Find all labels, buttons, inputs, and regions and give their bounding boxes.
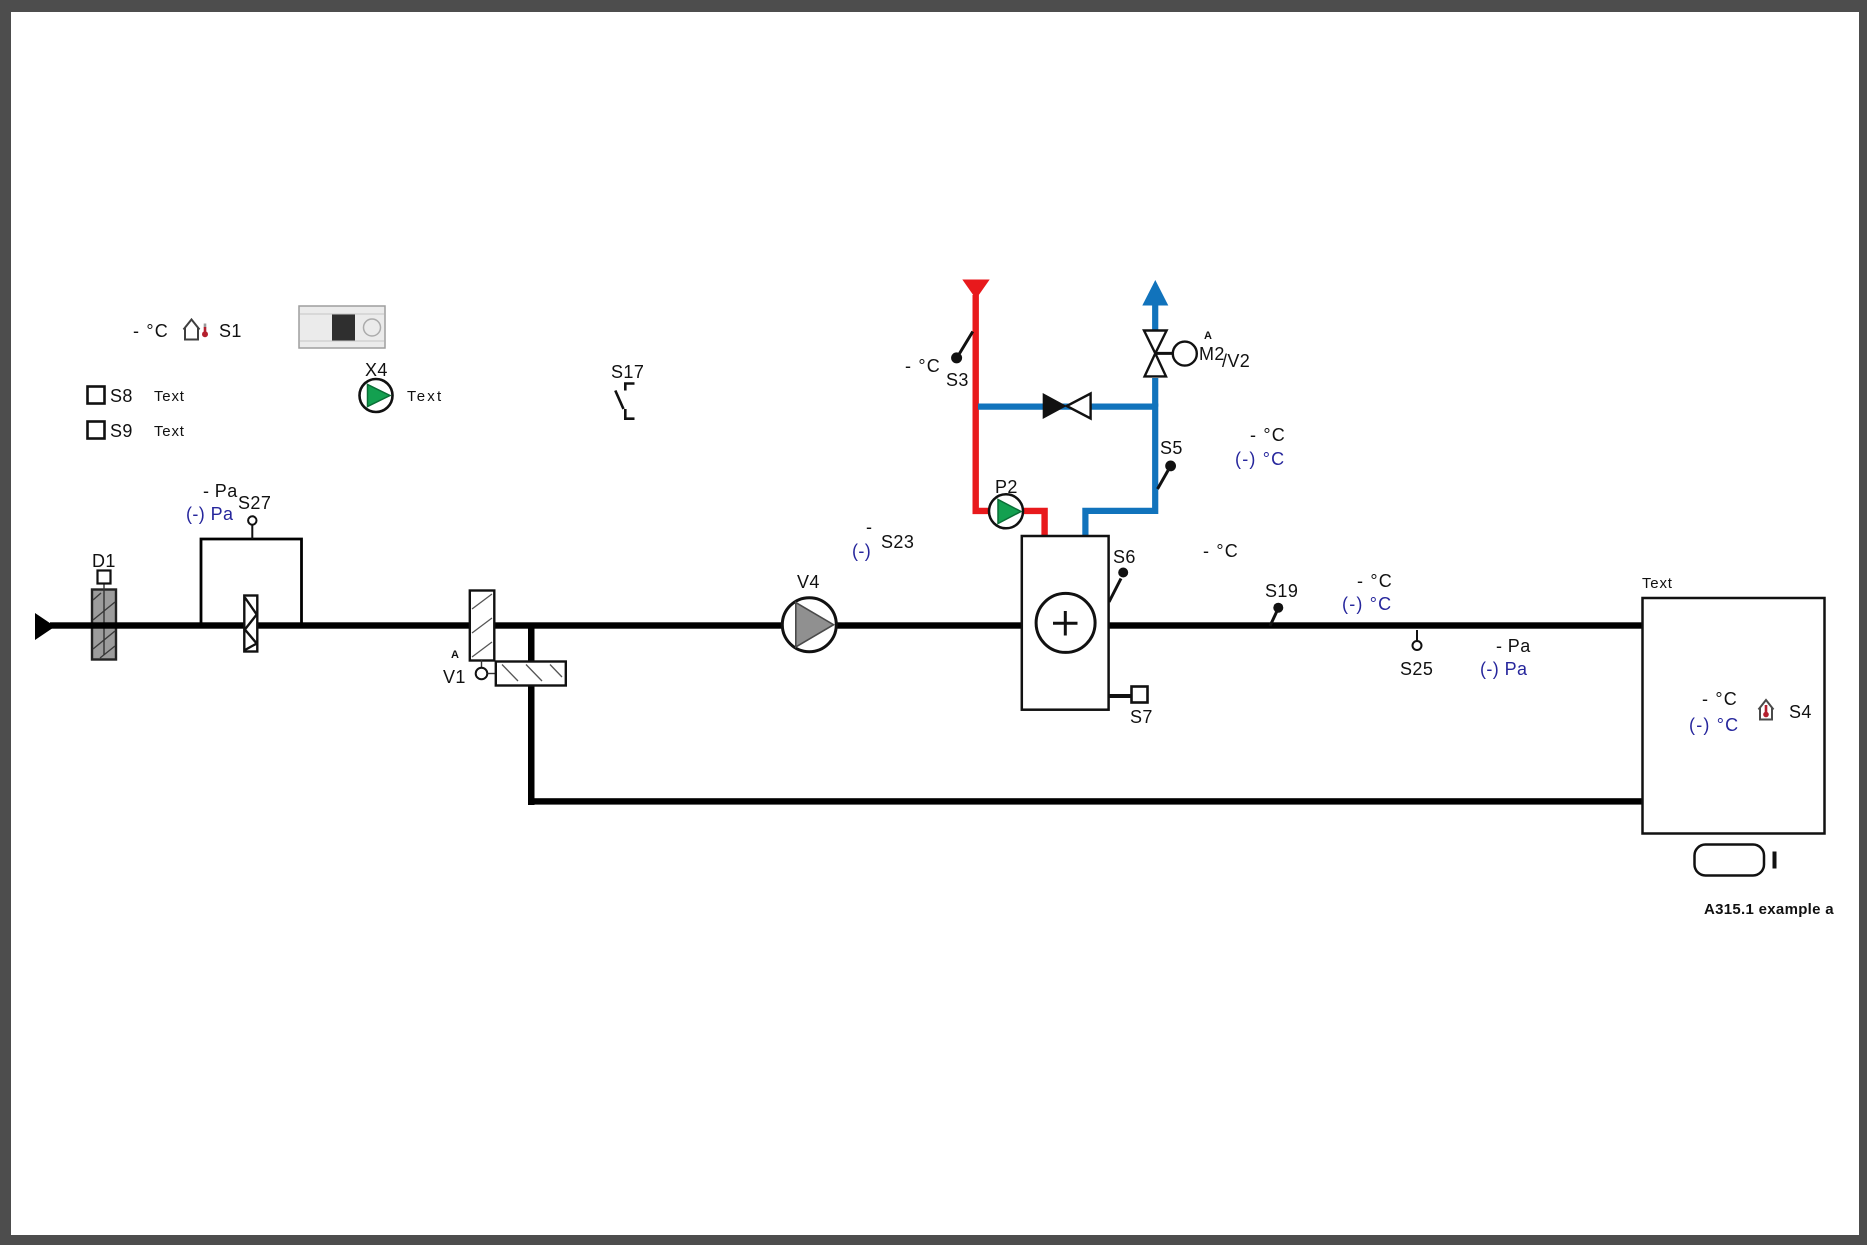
valve M2/V2 (1144, 331, 1167, 377)
svg-text:S7: S7 (1130, 707, 1153, 727)
return blue pipe (978, 305, 1155, 537)
svg-text:S23: S23 (881, 532, 914, 552)
indicator I (1773, 852, 1777, 869)
svg-text:- °C: - °C (133, 321, 169, 341)
check valve (1043, 393, 1067, 419)
sensor S5 (1158, 471, 1169, 490)
svg-text:A: A (1204, 330, 1212, 342)
svg-text:- Pa: - Pa (203, 481, 238, 501)
bypass duct S27 (201, 539, 302, 625)
svg-text:S19: S19 (1265, 581, 1298, 601)
svg-text:- °C: - °C (1203, 541, 1239, 561)
svg-text:- °C: - °C (905, 356, 941, 376)
svg-text:Text: Text (154, 388, 185, 405)
damper (bypass bowtie) (244, 596, 257, 652)
svg-text:Text: Text (1642, 575, 1673, 592)
svg-text:S9: S9 (110, 421, 133, 441)
indicator X4 (360, 379, 393, 412)
svg-text:V1: V1 (443, 667, 466, 687)
blue return arrow (1142, 280, 1168, 306)
control panel icon (299, 306, 385, 348)
red supply arrow (962, 280, 989, 300)
damper D1 body (92, 584, 116, 660)
svg-text:- Pa: - Pa (1496, 636, 1531, 656)
heater box (1022, 536, 1109, 710)
status button (1695, 845, 1765, 876)
supply red pipe (976, 295, 1045, 537)
checkbox S8 (88, 387, 105, 404)
svg-text:- °C: - °C (1357, 571, 1393, 591)
intake arrow (35, 613, 55, 640)
svg-text:(-) Pa: (-) Pa (1480, 659, 1528, 679)
svg-text:P2: P2 (995, 477, 1018, 497)
house icon S4 (1759, 700, 1774, 720)
thermometer S4 (1765, 705, 1768, 713)
svg-text:S27: S27 (238, 493, 271, 513)
svg-text:S1: S1 (219, 321, 242, 341)
svg-text:(-): (-) (852, 541, 871, 561)
svg-text:S17: S17 (611, 362, 644, 382)
svg-text:- °C: - °C (1702, 689, 1738, 709)
svg-text:A: A (451, 649, 459, 661)
sensor S3 (960, 332, 973, 354)
room box (1643, 598, 1825, 834)
sensor S19 (1270, 611, 1277, 626)
svg-text:V4: V4 (797, 572, 820, 592)
svg-text:(-) °C: (-) °C (1235, 449, 1285, 469)
return branch vertical (528, 625, 535, 805)
svg-text:(-) °C: (-) °C (1342, 594, 1392, 614)
sensor S6 (1109, 579, 1121, 603)
svg-text:S4: S4 (1789, 702, 1812, 722)
svg-text:S6: S6 (1113, 547, 1136, 567)
svg-text:X4: X4 (365, 360, 388, 380)
checkbox S9 (88, 422, 105, 439)
svg-text:Text: Text (407, 388, 443, 405)
svg-text:-: - (866, 517, 872, 537)
filter (return, horizontal) (496, 662, 566, 686)
svg-text:S5: S5 (1160, 438, 1183, 458)
sensor stem S27 (251, 524, 253, 539)
switch contact S17 (615, 384, 634, 419)
svg-text:S25: S25 (1400, 659, 1433, 679)
heater plus symbol (1036, 593, 1095, 652)
house icon S1 (184, 320, 200, 340)
sensor S7 (1109, 694, 1132, 698)
return duct line (528, 798, 1643, 804)
svg-text:- °C: - °C (1250, 425, 1286, 445)
svg-text:S8: S8 (110, 386, 133, 406)
svg-text:D1: D1 (92, 551, 116, 571)
svg-text:(-) °C: (-) °C (1689, 715, 1739, 735)
pump P2 (989, 494, 1023, 528)
svg-text:M2: M2 (1199, 344, 1225, 364)
sensor S25 (1416, 630, 1418, 641)
svg-text:/V2: /V2 (1222, 351, 1250, 371)
thermometer S1 (202, 324, 208, 338)
fan V4 (782, 598, 836, 652)
main supply duct line (50, 622, 1643, 628)
svg-text:S3: S3 (946, 370, 969, 390)
actuator box D1 (98, 571, 111, 584)
svg-text:Text: Text (154, 423, 185, 440)
actuator circle V1 (481, 660, 483, 668)
svg-text:(-) Pa: (-) Pa (186, 504, 234, 524)
filter V1 (470, 591, 495, 661)
svg-text:A315.1 example a: A315.1 example a (1704, 901, 1834, 918)
